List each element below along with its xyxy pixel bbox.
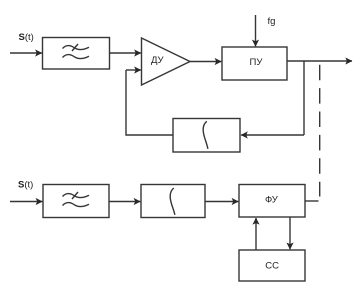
filter F1 box bbox=[43, 38, 110, 70]
svg-text:ДУ: ДУ bbox=[151, 55, 165, 66]
wire FU output stub to dashed line bbox=[305, 200, 319, 202]
wire SS to FU up arrow bbox=[255, 218, 257, 250]
wire FU to SS down arrow bbox=[289, 217, 291, 249]
wire into integrator I1 right side bbox=[241, 134, 304, 136]
svg-text:ПУ: ПУ bbox=[250, 57, 264, 68]
wire input arrow to filter F2 bbox=[10, 201, 42, 203]
wire filter F2 to integrator I2 bbox=[109, 201, 140, 203]
op-amp DU triangle bbox=[142, 38, 191, 85]
wire input arrow to filter F1 bbox=[10, 52, 42, 54]
block FU box bbox=[239, 185, 305, 218]
filter F1 symbol bbox=[63, 44, 90, 59]
wire DU to PU bbox=[190, 61, 221, 63]
integrator I2 box bbox=[141, 185, 205, 218]
svg-text:S(t): S(t) bbox=[19, 32, 34, 43]
wire dashed from output to FU bbox=[319, 65, 321, 197]
filter F2 box bbox=[43, 185, 109, 218]
filter F2 symbol bbox=[63, 192, 90, 207]
wire feedback vertical segment bbox=[126, 70, 173, 135]
block PU box bbox=[222, 47, 287, 80]
wire feedback arrow into DU bbox=[126, 69, 141, 71]
svg-text:S(t): S(t) bbox=[18, 180, 33, 191]
svg-text:ФУ: ФУ bbox=[265, 194, 279, 205]
block SS box bbox=[239, 250, 305, 281]
svg-text:СС: СС bbox=[265, 261, 279, 272]
wire filter F1 to amplifier DU bbox=[110, 52, 141, 54]
wire fg arrow into PU bbox=[255, 15, 257, 46]
integrator I1 box bbox=[173, 119, 240, 153]
svg-text:fg: fg bbox=[268, 16, 276, 27]
integrator I1 symbol bbox=[203, 121, 208, 149]
wire junction down to integrator I1 bbox=[303, 61, 305, 135]
wire integrator I2 to FU bbox=[205, 201, 238, 203]
wire PU output bbox=[287, 60, 352, 62]
integrator I2 symbol bbox=[170, 188, 175, 215]
